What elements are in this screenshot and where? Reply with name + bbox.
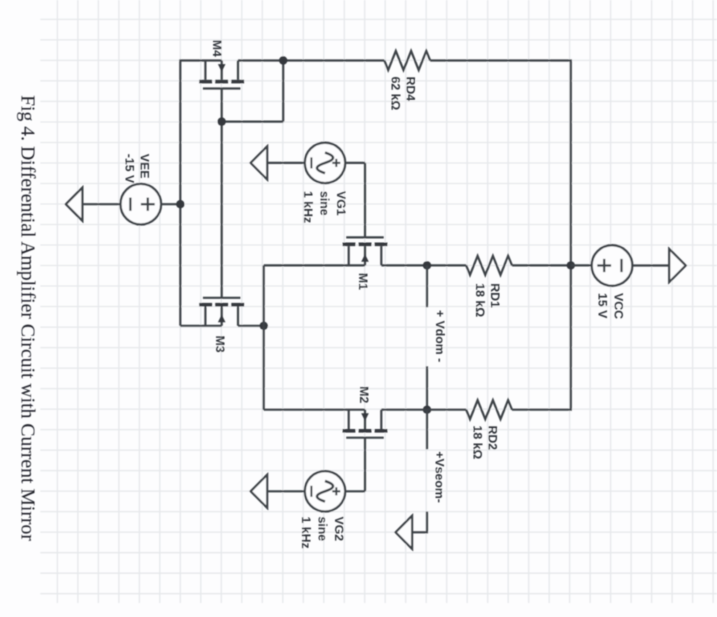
wire M3 bottom segment B [238, 325, 264, 327]
wire left supply rail vertical [179, 59, 181, 325]
wire VCC junction to source [571, 264, 592, 266]
wire Vseom horizontal to arrow [412, 531, 427, 533]
node top rail feedback junction [279, 56, 287, 64]
connector arrow VCC [669, 249, 686, 282]
svg-text:+ Vdom -: + Vdom - [433, 310, 447, 362]
svg-text:M3: M3 [213, 336, 227, 353]
connector arrow Vseom [396, 516, 413, 549]
label VCC [596, 293, 626, 319]
transistor M3 [199, 298, 244, 326]
node M2 drain junction [423, 406, 431, 414]
label RD1 [473, 283, 502, 317]
wire M1 row segment A [264, 264, 365, 266]
svg-text:sine: sine [316, 517, 330, 542]
wire top rail segment B (M4 drain to RD4 to right rail) [238, 59, 385, 61]
connector arrow VEE [66, 188, 83, 221]
transistor M4 [199, 61, 244, 89]
label VEE [123, 154, 152, 184]
label Vdom [433, 310, 447, 362]
svg-text:VEE: VEE [138, 154, 152, 179]
svg-text:15 V: 15 V [596, 293, 610, 319]
wire RD4 to right corner [430, 59, 572, 61]
wire VG1 arrow lead [267, 162, 305, 164]
svg-text:Fig 4. Differential Amplifier: Fig 4. Differential Amplifier Circuit wi… [17, 95, 39, 541]
wire right rail vertical [570, 61, 572, 410]
label M1 [356, 273, 370, 290]
wire Vseom lower segment [426, 512, 428, 534]
svg-text:RD4: RD4 [404, 77, 418, 102]
node M1 drain junction [423, 261, 431, 269]
label M4 [210, 40, 224, 57]
wire gate bus M4 plate to M3 plate [221, 89, 223, 298]
wire VCC source to arrow [632, 264, 669, 266]
connector arrow VG2 [251, 475, 268, 508]
wire M3 bottom segment A [180, 325, 221, 327]
label VG2 [299, 517, 346, 549]
transistor M2 [343, 410, 388, 438]
label M3 [213, 336, 227, 353]
svg-text:62 kΩ: 62 kΩ [389, 77, 403, 111]
node M3 drain junction [260, 322, 268, 330]
resistor RD1 [466, 256, 512, 275]
wire Vdom lower segment [426, 366, 428, 409]
wire VG1 to M1 gate corner [345, 162, 365, 164]
wire VG2 corner to source [345, 490, 365, 492]
svg-text:RD2: RD2 [486, 426, 500, 451]
svg-text:VG2: VG2 [332, 517, 346, 542]
wire gate feedback vertical to top rail [282, 61, 284, 122]
svg-text:VG1: VG1 [334, 191, 348, 216]
node VEE junction [176, 200, 184, 208]
label VG1 [301, 191, 348, 223]
svg-text:+Vseom-: +Vseom- [433, 451, 447, 503]
label RD2 [471, 426, 500, 460]
source VEE [121, 184, 162, 225]
svg-text:sine: sine [318, 191, 332, 216]
svg-text:VCC: VCC [612, 293, 626, 319]
svg-text:-15 V: -15 V [123, 154, 137, 184]
wire M2 row segment B [381, 409, 466, 411]
wire M2 gate down to VG2 [364, 438, 366, 492]
source VCC [592, 245, 633, 286]
transistor M1 [343, 237, 388, 265]
wire M1 row segment B [381, 264, 466, 266]
wire tail vertical (M1 row to M2 row) [263, 265, 265, 409]
connector arrow VG1 [251, 146, 268, 179]
wire VG1 down to M1 gate [364, 163, 366, 238]
label RD4 [389, 77, 418, 111]
svg-text:1 kHz: 1 kHz [301, 191, 315, 223]
wire top rail segment A (to M4 source/body) [180, 59, 221, 61]
resistor RD2 [466, 400, 512, 419]
source VG1 [305, 143, 345, 183]
node gate feedback junction [218, 117, 226, 125]
svg-text:1 kHz: 1 kHz [299, 517, 313, 549]
wire VEE source to left rail [161, 203, 180, 205]
wire RD1 to right rail [512, 264, 571, 266]
wire M2 row segment A [264, 409, 365, 411]
label M2 [357, 386, 371, 403]
label Vseom [433, 451, 447, 503]
svg-text:18 kΩ: 18 kΩ [473, 283, 487, 317]
svg-text:M2: M2 [357, 386, 371, 403]
wire Vseom upper segment [426, 410, 428, 450]
resistor RD4 [384, 51, 430, 70]
svg-text:18 kΩ: 18 kΩ [471, 426, 485, 460]
svg-text:RD1: RD1 [488, 283, 502, 308]
source VG2 [305, 471, 345, 511]
wire gate feedback horizontal [222, 120, 284, 122]
wire VG2 source to arrow [267, 490, 305, 492]
wire RD2 to right rail corner [512, 409, 572, 411]
svg-text:M1: M1 [356, 273, 370, 290]
svg-text:M4: M4 [210, 40, 224, 57]
wire VEE arrow to source [82, 203, 120, 205]
wire Vdom upper segment [426, 265, 428, 307]
node VCC junction [567, 261, 575, 269]
